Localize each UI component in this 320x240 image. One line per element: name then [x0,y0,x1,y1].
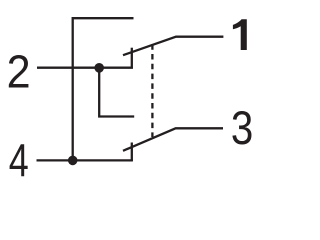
terminal label 1 [233,19,247,50]
wire L-branch from node on lead 2 down to middle stub [99,68,134,117]
svg-text:3: 3 [231,102,253,155]
wire terminal 2 lead [37,67,133,69]
junction node on lead 2 [94,63,104,73]
wire terminal 4 lead [37,159,133,161]
svg-text:2: 2 [7,47,31,98]
wire bus: vertical riser with top horizontal run [73,18,134,160]
switch moving arm + wire terminal 1 lead [123,37,223,56]
mechanical link (dashed) [151,44,153,137]
svg-text:4: 4 [9,135,29,186]
fixed contact post (bottom contact) [131,143,133,162]
fixed contact post (top contact) [131,48,133,69]
junction node on lead 4 [68,156,78,166]
switch moving arm + wire terminal 3 lead [123,128,223,151]
